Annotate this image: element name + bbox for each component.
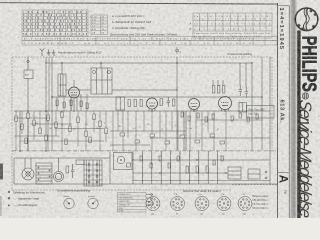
- IF transformer box: [116, 97, 125, 110]
- schematic chassis border bottom right (dashed): [232, 184, 277, 186]
- switch bank box S1: [228, 167, 241, 179]
- legend bullet 2: [8, 197, 11, 200]
- tube V4 UL41 output: [219, 97, 232, 112]
- ground symbol left: [47, 50, 51, 56]
- tube data table: [193, 13, 272, 38]
- wire bus vertical x270: [269, 57, 271, 184]
- wire mid horizontal y138: [150, 137, 270, 139]
- binder mark faint: [0, 196, 2, 216]
- resistor row front-end lower: [56, 100, 58, 106]
- wire bus y97: [52, 96, 262, 98]
- resistor R4: [160, 99, 162, 106]
- tube V2 UF21 IF amp: [147, 98, 158, 111]
- resistor boxes left cluster: [15, 116, 17, 122]
- wire bottom bus y184: [14, 183, 277, 185]
- coil unit T1 bandfilter: [91, 68, 112, 94]
- power unit box: [14, 152, 110, 184]
- resistor row mid right: [181, 112, 183, 117]
- mains transformer T2: [84, 160, 102, 186]
- resistor row power comb: [140, 156, 142, 161]
- auxiliary value table: [91, 15, 108, 35]
- tone switch box: [114, 153, 133, 170]
- panel date box top rule: [278, 5, 290, 7]
- capacitor C2: [239, 85, 243, 96]
- schematic chassis border right (dashed): [271, 57, 273, 150]
- separator dash-dot y151: [12, 150, 277, 152]
- antenna symbol: [40, 48, 45, 56]
- wire bus vertical x20: [19, 111, 21, 151]
- panel rule vertical inner: [288, 6, 290, 218]
- wire bus vertical x252: [251, 63, 253, 150]
- switch bank box S2: [248, 169, 260, 179]
- spine black bar: [297, 31, 300, 219]
- wire left-cluster verticals: [15, 111, 17, 151]
- choke box: [76, 160, 84, 165]
- wire L1 top: [61, 63, 63, 74]
- wire power horizontal y160: [133, 159, 270, 161]
- wire bus vertical x262: [261, 57, 263, 150]
- wire mid horizontal y118: [14, 117, 50, 119]
- vibrator contact stack: [36, 163, 52, 184]
- vibrator G1: [22, 158, 34, 180]
- resistor R8: [223, 86, 225, 94]
- resistor R1: [128, 100, 130, 107]
- resistor R7: [218, 86, 220, 94]
- mini emblem: [302, 93, 308, 99]
- legend bullet 1: [8, 191, 10, 193]
- wire mid horizontal y131: [110, 130, 186, 132]
- resistor row power small: [186, 166, 188, 173]
- output transformer: [239, 103, 247, 113]
- schematic chassis border top (dashed): [12, 56, 272, 58]
- resistor R3: [140, 100, 142, 107]
- panel rule vertical main: [277, 3, 279, 218]
- fold shadow band: [290, 0, 298, 218]
- resistor R20: [66, 166, 69, 173]
- tube V5 UY1N rectifier: [54, 158, 64, 182]
- wire bus vertical x52: [51, 57, 53, 151]
- schematic chassis border bottom left (dashed): [12, 189, 232, 191]
- antenna filter box: [24, 70, 33, 79]
- wire power horizontal y180: [133, 180, 270, 182]
- wire comb power-band verticals: [132, 151, 134, 184]
- resistor R5: [173, 99, 175, 106]
- wire bus vertical x177: [176, 57, 178, 150]
- left measurement table: [22, 10, 88, 36]
- coil L1 aerial: [58, 74, 66, 96]
- wire mid horizontal y120 right: [196, 119, 262, 121]
- terminal posts: [265, 171, 267, 179]
- measurement strip row 2: [22, 40, 277, 45]
- wire mid horizontal y124: [30, 123, 72, 125]
- dial knob 2: [88, 198, 98, 208]
- capacitor C3: [245, 87, 249, 98]
- wire power horizontal y173: [133, 172, 228, 174]
- Philips emblem: [295, 8, 318, 31]
- tube V1 UCH21 mixer: [69, 80, 80, 111]
- dial knob 1: [64, 198, 74, 208]
- wire top bus y63: [46, 62, 252, 64]
- wire T1 top: [100, 63, 102, 68]
- tube V3 UBC1 detector: [189, 99, 200, 112]
- wire antenna drop: [27, 57, 29, 70]
- top border rule: [0, 3, 278, 4]
- capacitor C20: [71, 164, 75, 178]
- wire antenna to switch: [27, 79, 29, 152]
- capacitor boxes mid band: [120, 133, 125, 136]
- wire mid horizontal y145: [110, 144, 150, 146]
- tube socket diagrams: [146, 194, 160, 216]
- capacitor C1: [167, 97, 171, 107]
- wire mid-band verticals: [112, 111, 114, 151]
- wire front-end verticals: [49, 57, 87, 111]
- mains connection table: [118, 193, 147, 213]
- measurement strip row 1: [22, 37, 277, 41]
- marker cell rule: [278, 172, 290, 174]
- speaker box: [247, 106, 275, 119]
- trimmer phi mark: [176, 47, 179, 54]
- wire AF verticals: [212, 80, 214, 86]
- wire bus y111: [14, 110, 270, 112]
- junction dots: [45, 62, 46, 63]
- resistor R2: [134, 100, 136, 107]
- wire bus y90: [66, 89, 177, 91]
- binder mark dark: [0, 164, 3, 180]
- wire mid horizontal y136: [14, 135, 60, 137]
- resistor R6 grid: [213, 86, 215, 94]
- schematic chassis border left (dashed): [11, 57, 13, 190]
- wire bus vertical x46: [45, 57, 47, 151]
- wire mid horizontal y141: [20, 140, 104, 142]
- antenna terminal: [27, 60, 29, 62]
- ground symbol right: [52, 50, 56, 56]
- wire mid horizontal y128: [55, 128, 104, 130]
